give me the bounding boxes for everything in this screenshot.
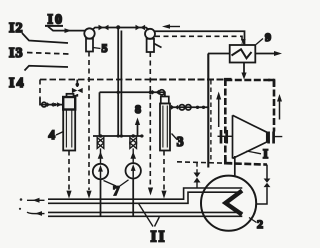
solid line unit6 to condenser 9 [155, 31, 245, 45]
pump branch 1: up arrow [98, 148, 104, 163]
upper water pipe with elbow up to boiler [48, 188, 242, 203]
separator unit 6: circle [145, 29, 155, 39]
left flange plates [221, 130, 227, 144]
elbow down into column 3 neck [163, 92, 166, 96]
flash vessel thick dashed: bottom edge [225, 163, 267, 164]
flash vessel thick dashed: top edge [225, 79, 274, 82]
leader from pipes to II [139, 204, 160, 227]
junction dot at riser [116, 25, 120, 29]
pump 7b discharge down [132, 178, 134, 215]
column 4 inlet elbow [74, 94, 78, 96]
main dashed boundary line y79.5 [40, 79, 150, 81]
leader to 5 [93, 48, 101, 49]
arrowhead down at pipe (x69) [66, 191, 71, 199]
arrowhead down at pipe (x164) [161, 191, 166, 199]
pump branch 1: twin valves [97, 138, 104, 149]
leader V to pumps [104, 180, 129, 186]
column 4 inlet step [67, 94, 74, 97]
separator unit 5: circle [84, 28, 94, 38]
boiler 2 circle [201, 176, 256, 231]
svg-text:4: 4 [49, 127, 56, 142]
left drain valve x195.5 [194, 163, 201, 188]
right nozzle stub [267, 136, 283, 138]
valve on top line (right) [136, 25, 146, 30]
svg-text:I3: I3 [9, 46, 23, 61]
vertical x99.5 to manifold [99, 92, 101, 136]
right up arrow [277, 94, 282, 120]
separator unit 6: body rect [147, 39, 154, 52]
unit6 outlet dashed down [149, 52, 151, 187]
left up arrow [216, 92, 221, 128]
drop line cone to boiler [234, 156, 236, 176]
condenser 9 box [230, 45, 256, 63]
leader to 3 [172, 134, 178, 140]
arrowhead down at pipe (x150.5) [148, 188, 153, 196]
leader to 4 [56, 132, 63, 136]
injector cone 1 [233, 115, 267, 158]
dashed line beside header [210, 80, 212, 161]
pump branch 2: up arrow [130, 148, 136, 162]
svg-text:9: 9 [265, 30, 271, 44]
arrowhead down at pipe (x89) [86, 191, 91, 199]
pump 7b internal arrow [131, 164, 136, 177]
valve above column 4 [72, 88, 83, 93]
column 3 body [160, 104, 170, 151]
svg-text:I4: I4 [9, 76, 25, 91]
ink speck [20, 198, 23, 201]
svg-text:3: 3 [177, 134, 184, 149]
column 3 neck [161, 97, 169, 104]
svg-text:I2: I2 [9, 21, 23, 36]
feed line into 9 [208, 53, 230, 55]
feed line I0 with right arrow [48, 27, 85, 34]
junction dot at dashed crossing [149, 91, 153, 95]
suction manifold y136 [93, 135, 144, 137]
pump branch 2: twin valves [130, 138, 137, 149]
feed line down from boundary [76, 80, 78, 88]
vessel corner caps [225, 79, 274, 163]
manifold junction dots [99, 134, 144, 138]
unit5 outlet dashed down [88, 52, 90, 191]
vertical header x209 [207, 54, 209, 168]
svg-text:2: 2 [257, 217, 263, 231]
leader line from I2 [22, 33, 68, 43]
underline of I0 [45, 25, 63, 27]
feed into column 4: tee dot [76, 83, 80, 87]
svg-text:5: 5 [102, 41, 108, 55]
leader to 9 [256, 39, 263, 45]
outlet line of 9 with right arrow [255, 51, 282, 56]
flow arrow 8 [135, 118, 140, 137]
riser double pipe [118, 28, 121, 137]
valve on y92.3 line [152, 90, 159, 95]
pump 7a internal arrow [98, 165, 103, 178]
svg-text:8: 8 [135, 102, 141, 116]
pump 7a circle [93, 164, 108, 179]
line 9 down to vessel with arrow [241, 62, 246, 80]
separator unit 5: body rect [86, 39, 93, 52]
dashed boundary line right part [150, 78, 225, 80]
left flow arrow above line [162, 24, 180, 29]
right flange plates [269, 132, 274, 144]
pump 7a discharge down [100, 179, 102, 216]
leader to 2 [249, 218, 257, 223]
top line from unit5 to unit6 [92, 28, 149, 31]
column 4 body [63, 97, 75, 151]
pump 7b circle [126, 163, 141, 178]
svg-text:II: II [151, 229, 167, 246]
dashed feed line I3 [27, 53, 69, 55]
right drain valve x265 [256, 165, 270, 204]
junction dot at riser [117, 91, 120, 94]
dashed line unit6 to condenser 9 [155, 36, 242, 43]
drain line with valves into column 4 [40, 98, 63, 107]
zigzag inside 9 [232, 49, 252, 58]
circle valve on y92.3 line [159, 90, 164, 95]
svg-text:I: I [263, 146, 268, 161]
ink speck [19, 208, 21, 210]
flash vessel thick dashed: left edge [224, 79, 227, 163]
left flange pipe stub [218, 135, 233, 137]
heating coil chevron [226, 191, 243, 215]
stub leader from unit 6 [154, 44, 162, 48]
left out arrow lower [27, 211, 45, 216]
lower water pipe [48, 212, 242, 216]
cross line to column 3, y92.3 [100, 91, 164, 93]
valve on top line (left) [99, 25, 109, 30]
arrowhead down into box 9 [241, 39, 246, 45]
dashed boundary left edge [39, 80, 41, 99]
leader to I [246, 151, 261, 154]
column 4 outlet dashed [68, 151, 70, 191]
feed line I4 [25, 66, 69, 71]
thin dashed bottom extension [177, 162, 226, 163]
line B from column 3 to header x209 [170, 105, 208, 110]
column 3 outlet dashed [163, 151, 165, 191]
left out arrow upper [27, 198, 45, 203]
flash vessel thick dashed: right edge [273, 80, 276, 132]
